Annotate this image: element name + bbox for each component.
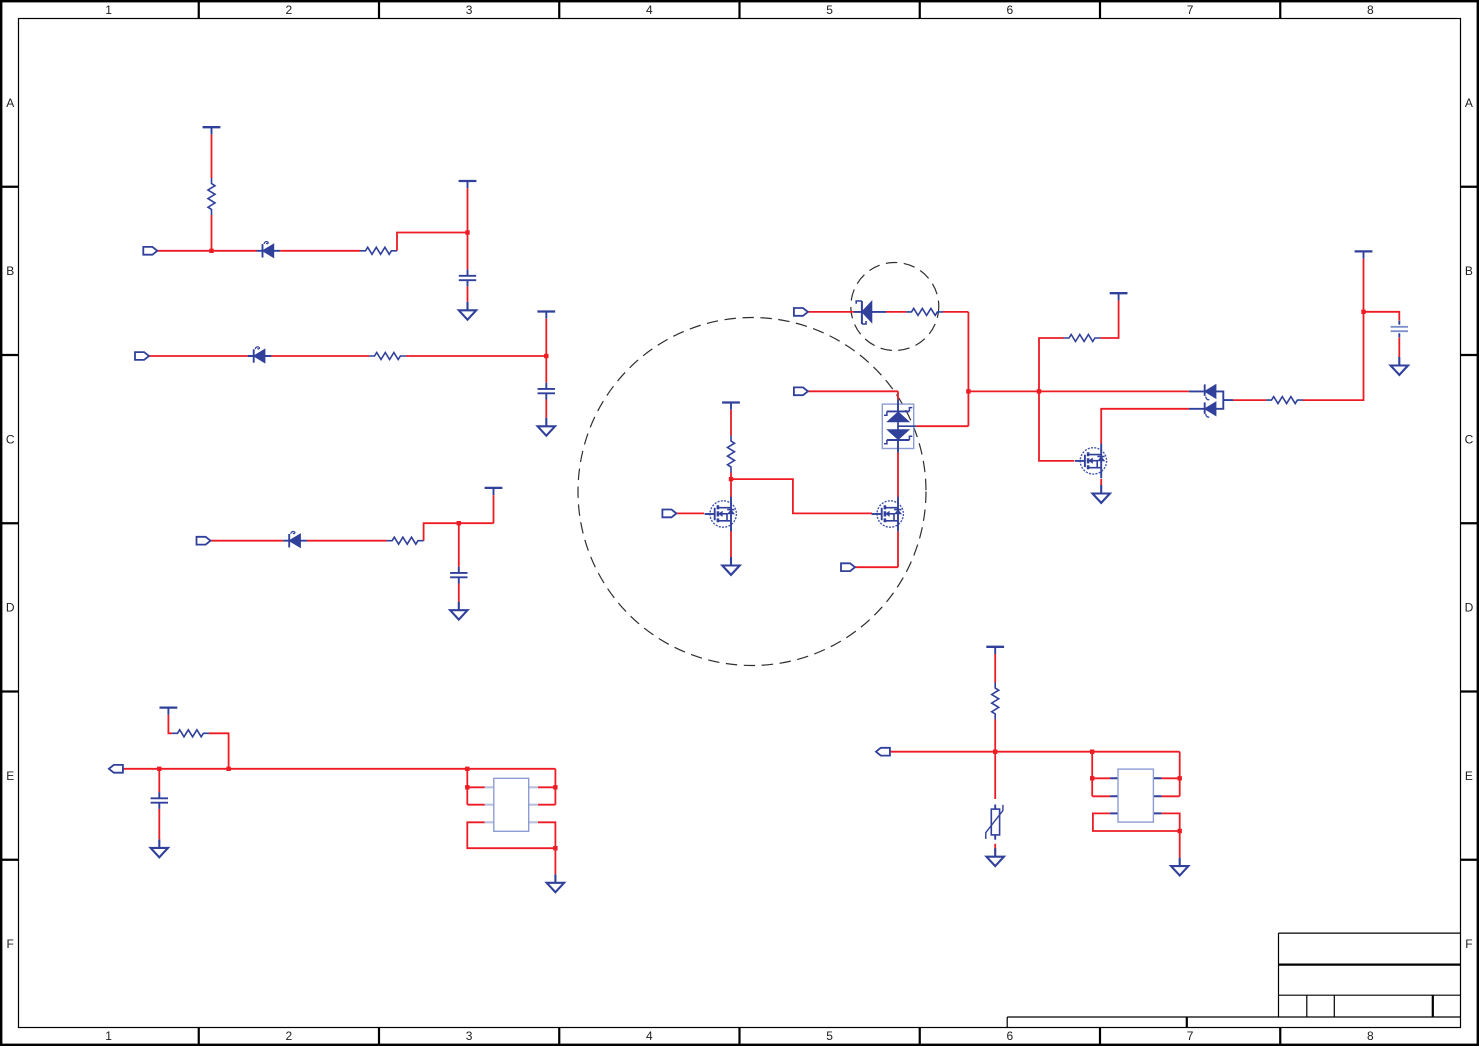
svg-text:5: 5 [826,1029,833,1043]
svg-text:7: 7 [1187,3,1194,17]
svg-text:F: F [1465,937,1472,951]
svg-text:A: A [1465,96,1473,110]
svg-text:4: 4 [646,3,653,17]
svg-text:6: 6 [1007,1029,1014,1043]
svg-text:7: 7 [1187,1029,1194,1043]
svg-text:D: D [1465,601,1474,615]
svg-text:B: B [1465,264,1473,278]
svg-text:1: 1 [105,3,112,17]
svg-text:2: 2 [286,1029,293,1043]
svg-text:B: B [6,264,14,278]
svg-text:2: 2 [286,3,293,17]
svg-text:C: C [6,432,15,446]
svg-text:5: 5 [826,3,833,17]
svg-text:8: 8 [1367,1029,1374,1043]
svg-text:E: E [1465,769,1473,783]
svg-text:C: C [1465,432,1474,446]
svg-text:3: 3 [466,1029,473,1043]
svg-text:F: F [7,937,14,951]
svg-text:4: 4 [646,1029,653,1043]
svg-text:1: 1 [105,1029,112,1043]
svg-text:A: A [6,96,14,110]
svg-text:8: 8 [1367,3,1374,17]
svg-text:3: 3 [466,3,473,17]
svg-text:E: E [6,769,14,783]
svg-text:D: D [6,601,15,615]
svg-text:6: 6 [1007,3,1014,17]
